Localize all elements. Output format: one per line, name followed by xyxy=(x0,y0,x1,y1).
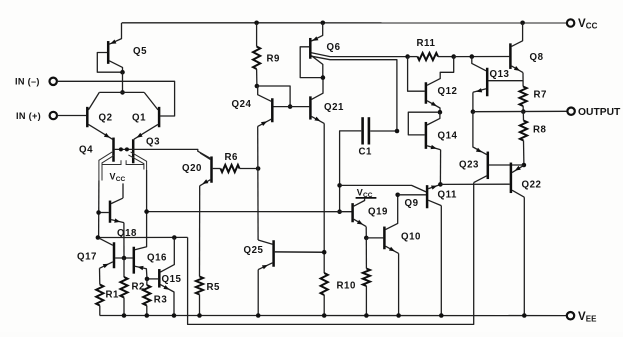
wire R9 junction to Q24/Q21 bases xyxy=(257,86,290,107)
node bias resistor-rail junction xyxy=(364,313,369,318)
resistor (Q10 base, label merged with R10 in scan) xyxy=(363,238,370,316)
resistor R1 xyxy=(96,285,119,316)
node Q16 emitter / Q15 base / R3 junction xyxy=(145,277,150,282)
svg-text:Q3: Q3 xyxy=(146,137,160,148)
node Q13 collector junction xyxy=(470,54,475,59)
wire Q1-Q2 collector tie xyxy=(99,91,144,93)
wire IN(-) to Q1 base xyxy=(57,81,175,116)
node R7-output junction xyxy=(521,109,526,114)
transistor Q2 xyxy=(87,92,112,139)
svg-text:IN (–): IN (–) xyxy=(15,77,40,87)
transistor Q1 xyxy=(132,92,159,139)
svg-text:Q1: Q1 xyxy=(132,113,146,124)
svg-text:CC: CC xyxy=(116,176,126,183)
svg-text:Q8: Q8 xyxy=(530,52,544,63)
power VCC (Q19 collector) xyxy=(357,188,376,200)
wire Q22 collector to rail xyxy=(523,197,525,315)
node C1-Q19 base junction xyxy=(337,209,342,214)
node Q25 emitter-rail junction xyxy=(256,313,261,318)
svg-text:Q12: Q12 xyxy=(438,86,458,97)
wire Q17 emitter to R1 xyxy=(99,268,101,284)
node Q3/Q4 base junction left xyxy=(119,147,123,151)
svg-text:IN (+): IN (+) xyxy=(16,111,41,121)
node Q3/Q4 base junction right xyxy=(125,147,129,151)
wire Q6 base to R11 line xyxy=(311,53,407,57)
svg-text:Q10: Q10 xyxy=(401,232,421,243)
resistor R9 xyxy=(253,23,280,86)
resistor R8 xyxy=(520,112,547,165)
node Q6/Q21 collector junction xyxy=(321,75,326,80)
wire Q24 emitter down to Q25 collector xyxy=(257,126,259,240)
wire Q16/Q17 base tie xyxy=(115,257,133,259)
wire Q13 emitter to output node xyxy=(472,92,474,111)
resistor R10 xyxy=(321,273,356,316)
node R11-Q12 base junction xyxy=(405,54,410,59)
wire compensation line to Q9 xyxy=(340,185,427,192)
node Q19 emitter / Q10 base junction xyxy=(364,236,369,241)
svg-text:R7: R7 xyxy=(534,90,547,101)
node R2-rail junction xyxy=(122,313,127,318)
node R11-Q12 collector junction xyxy=(451,54,456,59)
node R8 / Q23 base / Q22 emitter junction xyxy=(522,163,527,168)
transistor Q11 xyxy=(428,185,457,206)
wire VEE bottom rail xyxy=(100,315,567,317)
wire base junction to Q21 base xyxy=(290,106,309,108)
svg-text:R9: R9 xyxy=(267,54,281,65)
terminal OUTPUT xyxy=(567,107,621,118)
transistor Q16 xyxy=(134,248,167,279)
node Q10 collector / Q9 base junction xyxy=(395,193,400,198)
svg-text:Q22: Q22 xyxy=(522,180,542,191)
svg-text:EE: EE xyxy=(586,315,597,324)
wire Q20 emitter to R5 xyxy=(199,186,201,277)
node Q11 emitter / Q14 emitter junction xyxy=(438,182,443,187)
terminal VCC xyxy=(567,18,598,31)
transistor Q13 xyxy=(472,57,523,95)
node Q10 emitter-rail junction xyxy=(396,313,401,318)
transistor Q21 xyxy=(310,78,344,124)
svg-text:Q6: Q6 xyxy=(327,42,341,53)
node Q12 emitter / Q14 collector junction xyxy=(438,110,443,115)
transistor Q10 xyxy=(384,195,421,254)
wire VCC top rail xyxy=(122,22,567,24)
svg-text:Q20: Q20 xyxy=(182,163,202,174)
node R9-Q24 collector junction xyxy=(255,84,260,89)
node Q13 emitter-output junction xyxy=(471,109,476,114)
transistor Q9 xyxy=(405,186,428,209)
wire Q3/Q4 base tie to Q20 collector xyxy=(115,149,211,158)
node mirror-Q17 junction xyxy=(96,235,101,240)
transistor Q23 xyxy=(459,112,523,183)
svg-text:R1: R1 xyxy=(106,290,120,301)
node Q22-rail junction xyxy=(522,313,527,318)
resistor R6 xyxy=(213,152,258,172)
svg-text:V: V xyxy=(110,172,116,182)
wire Q9 base xyxy=(398,194,426,196)
node rail-Q8 junction xyxy=(520,21,525,26)
capacitor C1 xyxy=(340,119,397,212)
transistor Q3 xyxy=(133,133,160,162)
node Q5 collector junction xyxy=(120,70,125,75)
svg-text:R6: R6 xyxy=(225,152,239,163)
svg-text:Q23: Q23 xyxy=(459,160,479,171)
wire Q11 node to Q22 base xyxy=(440,183,509,185)
terminal IN(+) xyxy=(16,111,57,121)
wire Q3 collector node to Q19 base xyxy=(147,211,352,213)
node R10-rail junction xyxy=(322,313,327,318)
node Q25 base junction xyxy=(322,250,327,255)
svg-text:Q21: Q21 xyxy=(324,102,344,113)
transistor Q15 xyxy=(148,238,182,316)
svg-text:Q11: Q11 xyxy=(438,190,457,201)
node Q15 emitter-rail junction xyxy=(172,313,177,318)
node R6-Q24 emitter junction xyxy=(256,166,261,171)
resistor R5 xyxy=(196,277,220,316)
svg-text:Q15: Q15 xyxy=(162,274,182,285)
wire Q21 emitter down through R10 xyxy=(323,123,325,273)
wire Q19 emitter to Q10 base xyxy=(365,227,367,238)
node C1-Q9 line junction xyxy=(337,183,342,188)
node Q11-rail junction xyxy=(439,313,444,318)
wire Q6 base-collector loop xyxy=(300,47,323,78)
wire Q5 base-collector loop xyxy=(97,53,122,73)
node C1 right plate junction xyxy=(395,129,400,134)
resistor R3 xyxy=(143,279,167,316)
wire Q18 base xyxy=(99,212,109,214)
svg-text:R11: R11 xyxy=(417,38,436,49)
node rail-Q6 junction xyxy=(321,21,326,26)
wire Q4 collector (outlined) down to Q18 base rail xyxy=(99,152,121,238)
node Q1/Q2 collector junction xyxy=(120,90,125,95)
wire IN(+) to Q2 base xyxy=(57,115,86,117)
svg-text:Q4: Q4 xyxy=(79,145,93,156)
resistor R2 xyxy=(120,258,145,316)
svg-text:Q17: Q17 xyxy=(77,252,97,263)
svg-text:V: V xyxy=(578,18,586,30)
transistor Q8 xyxy=(510,23,543,73)
wire Q8 emitter to R7 xyxy=(522,73,524,87)
transistor Q25 xyxy=(244,240,325,270)
svg-text:V: V xyxy=(578,311,586,323)
wire Q6 to Q9 base column xyxy=(311,56,397,131)
node Q16/Q17 base junction xyxy=(122,256,127,261)
node R5-rail junction xyxy=(197,313,202,318)
transistor Q5 xyxy=(108,23,147,72)
node mirror-Q15 junction xyxy=(172,235,177,240)
wire Q18 emitter to Q16/Q17 bases xyxy=(123,223,125,258)
node Q24 base junction xyxy=(288,104,293,109)
wire output node xyxy=(473,110,568,112)
resistor R11 xyxy=(408,38,454,60)
node Q18 base junction xyxy=(96,210,101,215)
svg-text:R8: R8 xyxy=(533,125,547,136)
transistor Q22 xyxy=(511,164,542,197)
terminal IN(-) xyxy=(15,77,57,87)
svg-text:Q9: Q9 xyxy=(405,198,419,209)
wire Q3 collector (outlined) down to Q16 collector xyxy=(126,152,147,250)
svg-text:CC: CC xyxy=(586,22,598,31)
transistor Q14 xyxy=(408,112,457,150)
power VCC (Q18 collector) xyxy=(110,172,126,199)
svg-text:Q16: Q16 xyxy=(147,253,167,264)
wire Q10 base xyxy=(366,237,383,239)
transistor Q12 xyxy=(408,57,458,113)
svg-text:R3: R3 xyxy=(154,295,168,306)
wire Q14 emitter to Q11 collector node xyxy=(439,150,441,185)
transistor Q17 xyxy=(77,238,114,268)
svg-text:R5: R5 xyxy=(207,282,221,293)
svg-text:V: V xyxy=(357,188,363,198)
wire Q10 emitter to rail xyxy=(398,253,400,315)
transistor Q4 xyxy=(79,133,114,161)
svg-text:OUTPUT: OUTPUT xyxy=(578,107,621,118)
terminal VEE xyxy=(567,311,597,324)
node R3-rail junction xyxy=(145,313,150,318)
wire Q25 emitter to rail xyxy=(257,270,259,316)
wire bias return (lower second wire) xyxy=(188,183,474,325)
node rail-R9 junction xyxy=(254,21,259,26)
transistor Q6 xyxy=(310,23,340,78)
transistor Q24 xyxy=(232,86,291,126)
svg-text:Q24: Q24 xyxy=(232,99,252,110)
svg-text:Q19: Q19 xyxy=(368,207,388,218)
wire mirror bias line xyxy=(98,236,188,238)
wire Q5 collector to Q1/Q2 collectors xyxy=(122,72,124,92)
wire R11 to Q8 base xyxy=(454,56,510,58)
transistor Q20 xyxy=(182,153,212,186)
transistor Q19 xyxy=(353,199,388,227)
transistor Q18 xyxy=(110,198,137,239)
node Q3 collector - Q19 base line junction xyxy=(144,209,149,214)
svg-text:Q13: Q13 xyxy=(490,69,510,80)
svg-text:Q5: Q5 xyxy=(133,46,147,57)
resistor R7 xyxy=(520,87,547,112)
wire Q11 down to rail xyxy=(440,206,442,316)
svg-text:Q2: Q2 xyxy=(99,113,113,124)
svg-text:R10: R10 xyxy=(337,281,356,292)
svg-text:C1: C1 xyxy=(359,147,373,158)
svg-text:Q14: Q14 xyxy=(438,131,458,142)
svg-text:Q25: Q25 xyxy=(244,245,264,256)
